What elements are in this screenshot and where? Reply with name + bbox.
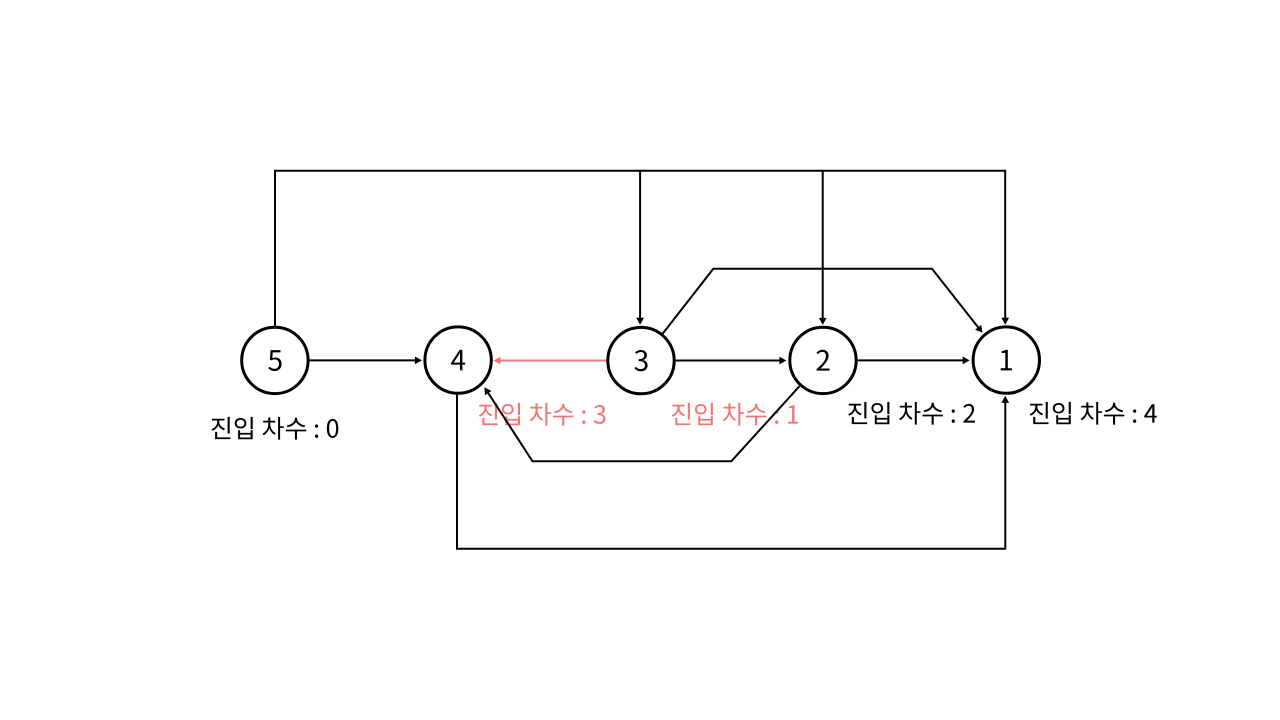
label 진입 차수 : 4 (1030, 402, 1157, 425)
arrowhead into node 1 bottom (1001, 396, 1009, 403)
wire edge 3 to 4 (red) (500, 360, 607, 362)
wire edge 3 to 1 (663, 269, 979, 334)
label 진입 차수 : 0 (212, 417, 339, 440)
wire edge 2 to 4 (488, 386, 800, 461)
wire edge 5 to 4 (310, 359, 416, 361)
arrowhead into node 4 lower-right (484, 387, 491, 395)
arrowhead into node 4 right (red) (494, 357, 501, 365)
node 2 digit (816, 350, 829, 371)
node 5 circle (242, 327, 308, 393)
node 4 digit (451, 350, 465, 371)
node 3 circle (608, 327, 674, 393)
arrowhead into node 1 left (963, 357, 970, 365)
wire drop to node 3 (639, 171, 641, 319)
wire drop to node 2 (822, 171, 824, 319)
arrowhead into node 3 top (636, 318, 644, 325)
node 1 digit (1001, 350, 1012, 371)
label 진입 차수 : 2 (848, 402, 975, 425)
arrowhead into node 2 top (819, 318, 827, 325)
label 진입 차수 : 3 (479, 403, 606, 426)
arrowhead into node 1 upper-left (975, 325, 982, 333)
wire edge 2 to 1 (858, 359, 964, 361)
wire edge 4 to 1 bottom route (457, 395, 1005, 549)
wire top route from node 5 (275, 171, 1005, 326)
node 5 digit (268, 350, 281, 371)
arrowhead into node 1 top (1001, 318, 1009, 325)
node 4 circle (425, 327, 491, 393)
node 2 circle (790, 327, 856, 393)
wire edge 3 to 2 (676, 360, 781, 362)
label 진입 차수 : 1 (672, 403, 798, 426)
arrowhead into node 4 left (415, 357, 422, 365)
node 1 circle (973, 327, 1039, 393)
arrowhead into node 2 left (779, 357, 786, 365)
node 3 digit (634, 350, 647, 371)
